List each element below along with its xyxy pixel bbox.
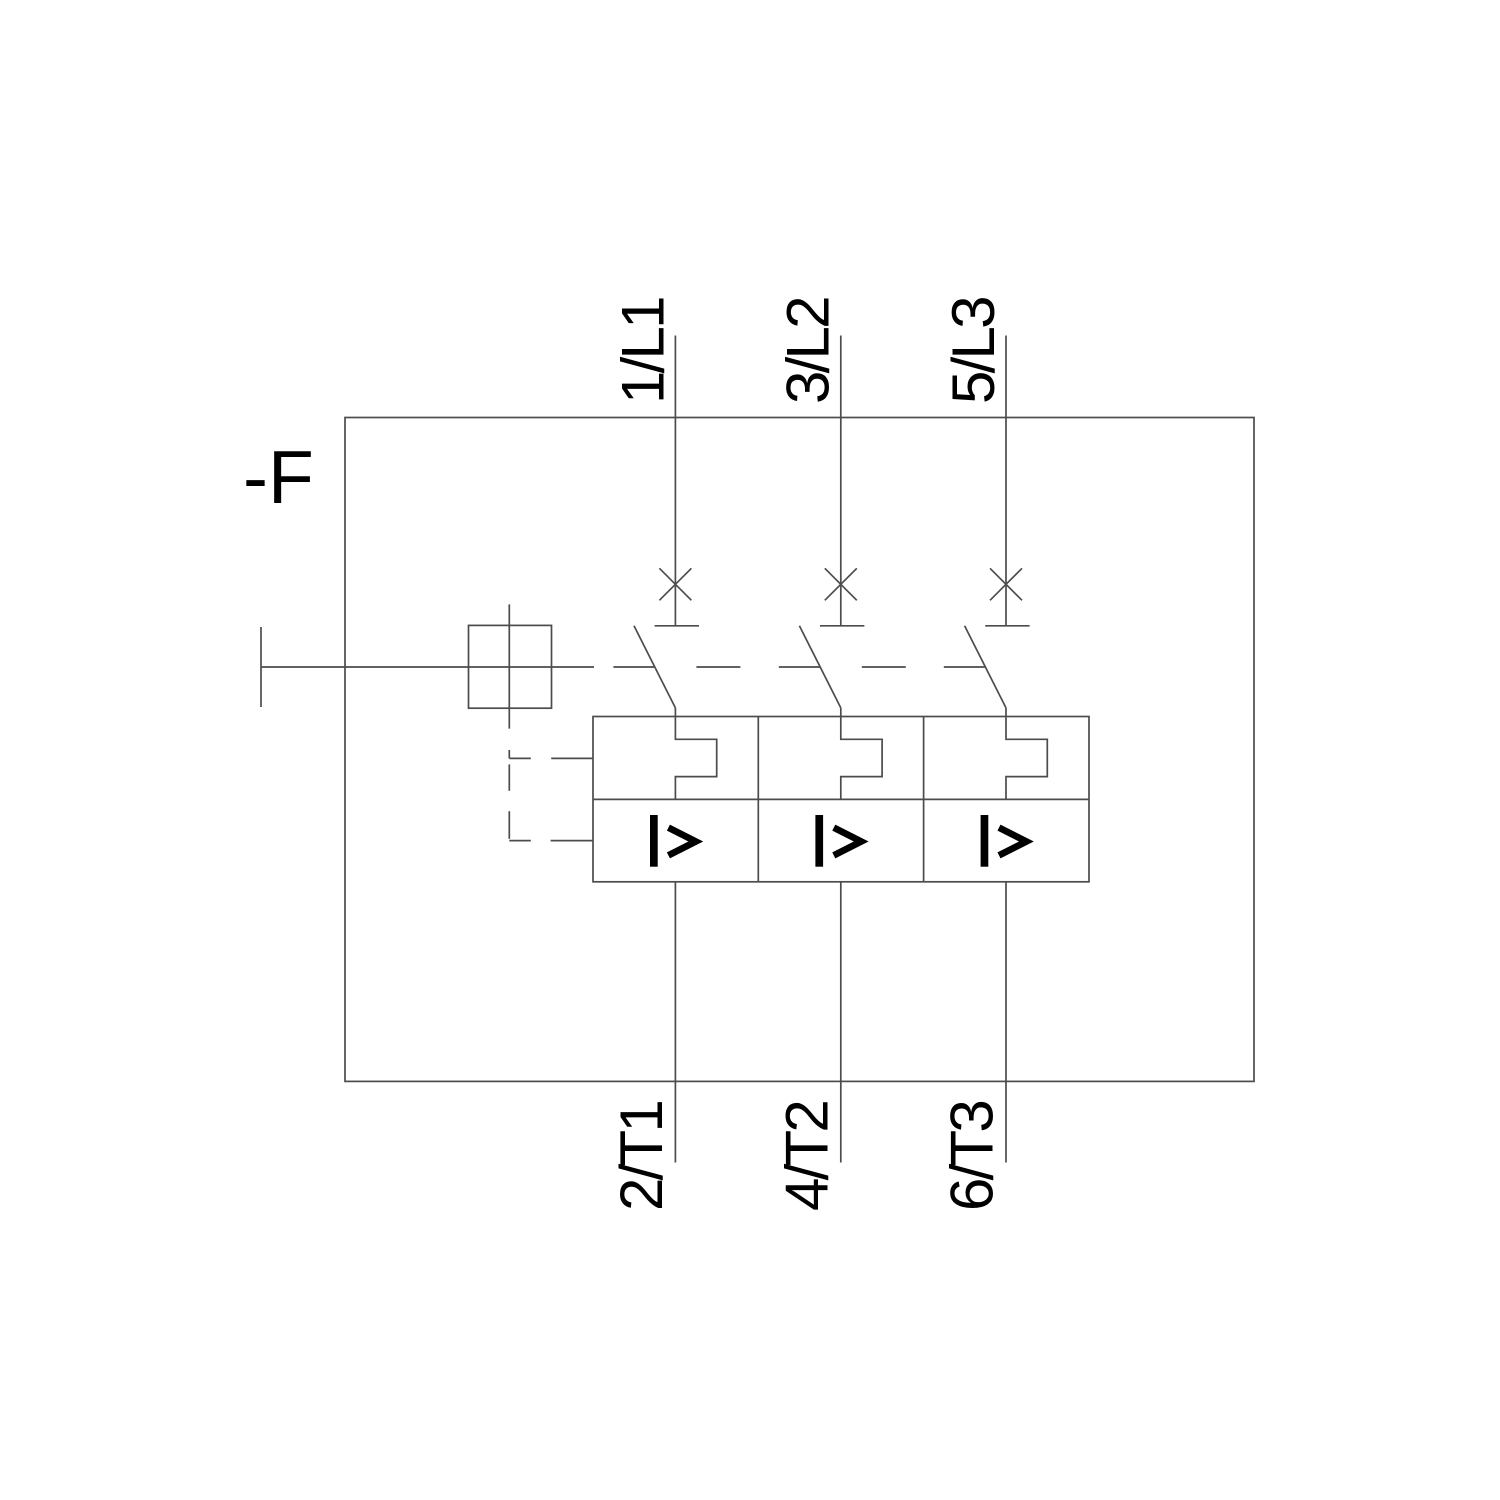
svg-text:5/L3: 5/L3 (940, 298, 1007, 404)
svg-text:1/L1: 1/L1 (609, 298, 676, 404)
svg-text:3/L2: 3/L2 (775, 298, 842, 404)
svg-text:4/T2: 4/T2 (773, 1102, 840, 1211)
svg-text:6/T3: 6/T3 (939, 1102, 1006, 1211)
svg-text:2/T1: 2/T1 (608, 1102, 675, 1211)
svg-text:-F: -F (243, 435, 314, 519)
